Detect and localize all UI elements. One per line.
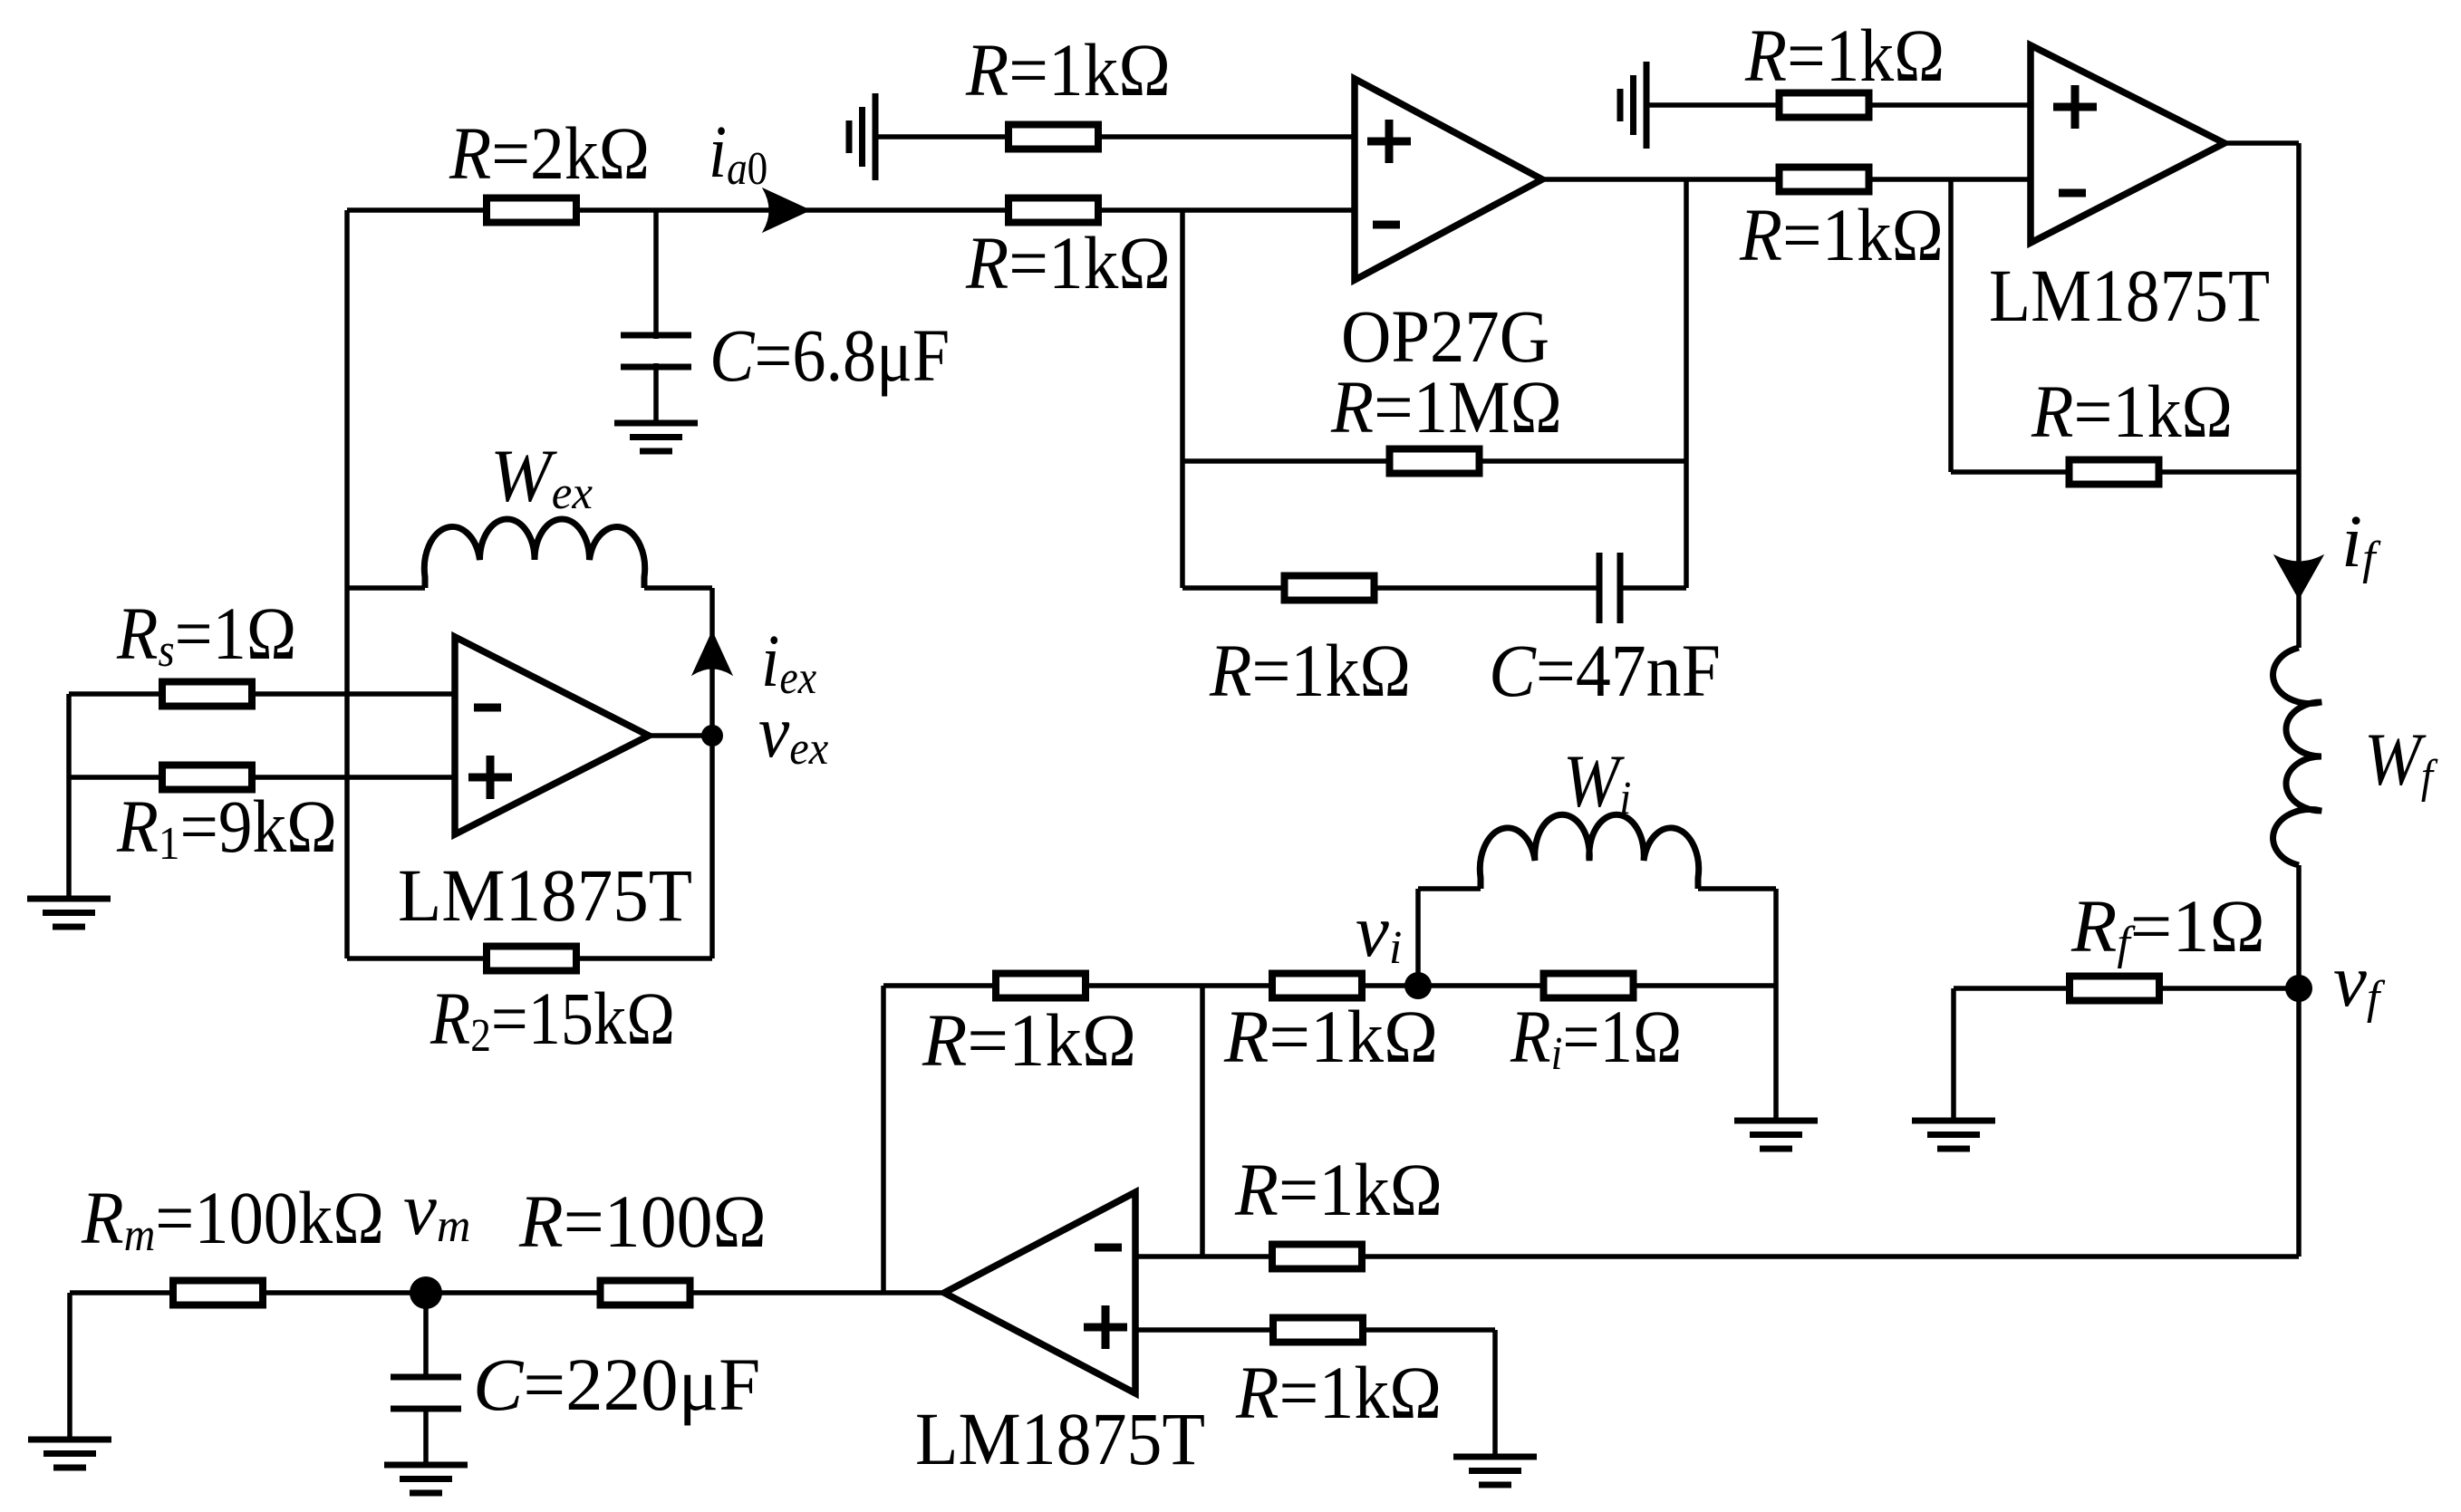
label LM1875T left: [398, 853, 692, 937]
svg-text:R=1MΩ: R=1MΩ: [1330, 366, 1562, 448]
wire OP27G output feedback drop: [1684, 179, 1689, 588]
ground at OP27G non-inverting input: [873, 93, 879, 180]
wire OP27G non-inverting input: [875, 134, 1355, 140]
wire integrator output run: [70, 1290, 944, 1295]
wire W_i right drop: [1773, 889, 1779, 1121]
wire feedback tap at inverting input: [1180, 210, 1185, 588]
label W_ex: [490, 434, 593, 519]
op-amp LM1875T (field driver): [2031, 45, 2225, 243]
label R=1k vf: [1234, 1149, 1443, 1231]
wire R_f branch: [1954, 986, 2299, 991]
wire main top (feedback node to OP27G inverting input): [347, 207, 1355, 213]
wire non-inverting input: [1135, 1327, 1495, 1333]
label C=47nF: [1489, 630, 1721, 713]
wire v_m capacitor branch: [423, 1293, 429, 1377]
resistor R=1k (first): [996, 974, 1086, 998]
capacitor C=6.8uF: [621, 332, 691, 339]
ground at input divider: [27, 896, 111, 902]
svg-text:R=1kΩ: R=1kΩ: [1744, 14, 1945, 98]
label R=1M: [1330, 366, 1562, 448]
svg-text:R=1kΩ: R=1kΩ: [1739, 194, 1944, 276]
label LM1875T top right: [1989, 255, 2270, 338]
label OP27G: [1341, 295, 1549, 378]
capacitor C=47nF: [1597, 553, 1603, 623]
label R=1k first: [922, 998, 1136, 1082]
resistor R=1k (second): [1272, 974, 1362, 998]
inductor W_ex: [424, 519, 644, 588]
resistor R=2k: [487, 198, 576, 223]
svg-text:R1​=9kΩ: R1​=9kΩ: [116, 785, 337, 870]
wire R_2 feedback: [347, 956, 712, 961]
label R=100: [518, 1180, 767, 1264]
svg-text:LM1875T: LM1875T: [915, 1398, 1205, 1481]
label LM1875T bottom: [915, 1398, 1205, 1481]
ground at LM1875T non-inverting input: [1644, 62, 1650, 149]
ground at non-inverting input: [1453, 1454, 1537, 1460]
ground at R_m: [28, 1437, 111, 1443]
ground below C=6.8uF: [614, 420, 698, 427]
resistor R=1k (OP27G + input): [1009, 125, 1098, 149]
label R_f=1: [2070, 884, 2265, 969]
op-amp LM1875T (integrator): [944, 1192, 1135, 1393]
wire LM1875T feedback bottom: [1951, 469, 2299, 475]
ground below W_i: [1734, 1118, 1818, 1124]
current arrow i_f: [2274, 555, 2323, 599]
wire drop from bottom op-amp output: [881, 986, 886, 1293]
LM1875T plus sign: [2053, 103, 2097, 111]
resistor R_2=15k: [487, 947, 576, 971]
svg-text:R=1kΩ: R=1kΩ: [1223, 995, 1438, 1078]
svg-text:C=47nF: C=47nF: [1489, 630, 1721, 713]
svg-text:R=1kΩ: R=1kΩ: [965, 29, 1171, 112]
label R=1k mid: [1739, 194, 1944, 276]
label R=1k LM feedback: [2031, 371, 2233, 454]
wire W_ex right + v_ex vertical: [644, 585, 712, 591]
resistor R_s=1: [162, 682, 252, 707]
op-amp OP27G: [1355, 79, 1542, 280]
resistor R_f=1: [2070, 977, 2159, 1001]
svg-text:Rf​=1Ω: Rf​=1Ω: [2070, 884, 2265, 969]
capacitor C=220uF: [391, 1374, 461, 1381]
node v_i: [1404, 972, 1432, 999]
resistor R=1k (v_f to inverting): [1272, 1245, 1362, 1269]
label R_i=1: [1510, 995, 1682, 1080]
label v_ex: [758, 691, 828, 775]
wire LM1875T output: [2225, 140, 2299, 146]
wire RC feedback branch: [1182, 585, 1599, 591]
label v_i: [1356, 889, 1402, 974]
label i_a0: [709, 110, 767, 194]
label C=6.8uF: [709, 314, 950, 398]
resistor R_m=100k: [173, 1281, 263, 1305]
OP27G minus sign: [1373, 221, 1400, 229]
inductor W_i: [1480, 814, 1698, 889]
label v_m: [403, 1167, 470, 1252]
wire R=1M feedback branch: [1182, 458, 1686, 464]
svg-text:LM1875T: LM1875T: [398, 853, 692, 937]
wire integrator input run: [883, 983, 1776, 988]
svg-text:R=1kΩ: R=1kΩ: [2031, 371, 2233, 454]
wire excitation output: [649, 733, 712, 738]
current arrow i_ex: [692, 631, 732, 675]
wire LM1875T non-inverting input: [1646, 102, 2031, 108]
resistor R=1k (RC branch): [1285, 576, 1375, 601]
svg-text:R=1kΩ: R=1kΩ: [1234, 1149, 1443, 1231]
label R_2=15k: [429, 977, 675, 1061]
ground below C=220uF: [384, 1462, 468, 1469]
label R=1k second: [1223, 995, 1438, 1078]
label i_f: [2341, 499, 2381, 584]
svg-text:C=220μF: C=220μF: [473, 1343, 760, 1426]
wire W_ex branch left: [347, 585, 425, 591]
resistor R_i=1: [1544, 974, 1634, 998]
wire W_f to v_f: [2296, 865, 2302, 1257]
wire OP27G output: [1542, 177, 2031, 182]
inductor W_i elbows: [1415, 889, 1421, 986]
resistor R=1k (LM1875T feedback): [2070, 460, 2159, 485]
svg-text:C=6.8μF: C=6.8μF: [709, 314, 950, 398]
label v_f: [2333, 939, 2386, 1024]
wire LM1875T feedback drop: [1948, 179, 1954, 472]
current arrow i_a0: [763, 188, 810, 232]
OP27G plus sign: [1367, 138, 1411, 146]
svg-text:R2​=15kΩ: R2​=15kΩ: [429, 977, 675, 1061]
wire R_1 input: [69, 775, 455, 780]
resistor R=1k (OP27G - input): [1009, 198, 1098, 223]
svg-text:R=1kΩ: R=1kΩ: [1235, 1352, 1442, 1435]
wire left input ground drop: [66, 694, 72, 899]
resistor R=100: [601, 1281, 690, 1305]
label R=2k: [449, 112, 650, 196]
label R=1k top: [965, 29, 1171, 112]
resistor R=1k (to LM1875T inverting): [1780, 168, 1869, 192]
wire junction drop to inverting input: [1200, 986, 1205, 1257]
node v_f: [2285, 975, 2312, 1002]
node v_ex: [701, 725, 723, 746]
node v_m: [410, 1276, 442, 1309]
integrator minus sign: [1095, 1244, 1122, 1252]
resistor R_1=9k: [162, 766, 252, 790]
svg-text:Rs​=1Ω: Rs​=1Ω: [116, 592, 296, 676]
label W_f: [2364, 718, 2438, 803]
label R_s=1: [116, 592, 296, 676]
label R_m=100k: [81, 1177, 384, 1260]
wire R_m ground drop: [67, 1293, 72, 1440]
resistor R=1k (non-inverting to gnd): [1273, 1318, 1363, 1343]
label R=1k plus gnd: [1235, 1352, 1442, 1435]
label i_ex: [761, 619, 816, 704]
label R=1k RC: [1209, 630, 1411, 713]
integrator plus sign: [1084, 1324, 1127, 1332]
label W_i: [1563, 740, 1631, 823]
wire capacitor branch: [653, 210, 659, 423]
label R_1=9k: [116, 785, 337, 870]
wire left vertical feedback bus: [344, 210, 350, 958]
resistor R=1M: [1390, 449, 1480, 474]
svg-text:R=100Ω: R=100Ω: [518, 1180, 767, 1264]
svg-text:Ri​=1Ω: Ri​=1Ω: [1510, 995, 1682, 1080]
label C=220uF: [473, 1343, 760, 1426]
wire non-inverting ground drop: [1492, 1330, 1498, 1457]
ground below R_f: [1912, 1118, 1995, 1124]
LM1875T minus sign: [2059, 189, 2086, 197]
excitation op-amp plus sign: [468, 774, 512, 782]
svg-text:R=1kΩ: R=1kΩ: [965, 222, 1171, 305]
label R=1k top right: [1744, 14, 1945, 98]
svg-text:LM1875T: LM1875T: [1989, 255, 2270, 338]
svg-text:R=2kΩ: R=2kΩ: [449, 112, 650, 196]
svg-text:R=1kΩ: R=1kΩ: [922, 998, 1136, 1082]
op-amp LM1875T (excitation): [455, 637, 649, 834]
resistor R=1k (LM1875T + input): [1780, 93, 1869, 118]
wire inverting input long run: [1135, 1254, 2299, 1259]
svg-text:R=1kΩ: R=1kΩ: [1209, 630, 1411, 713]
wire R_s input: [69, 691, 455, 697]
excitation op-amp minus sign: [474, 704, 501, 712]
inductor W_f: [2273, 648, 2321, 865]
label R=1k below: [965, 222, 1171, 305]
